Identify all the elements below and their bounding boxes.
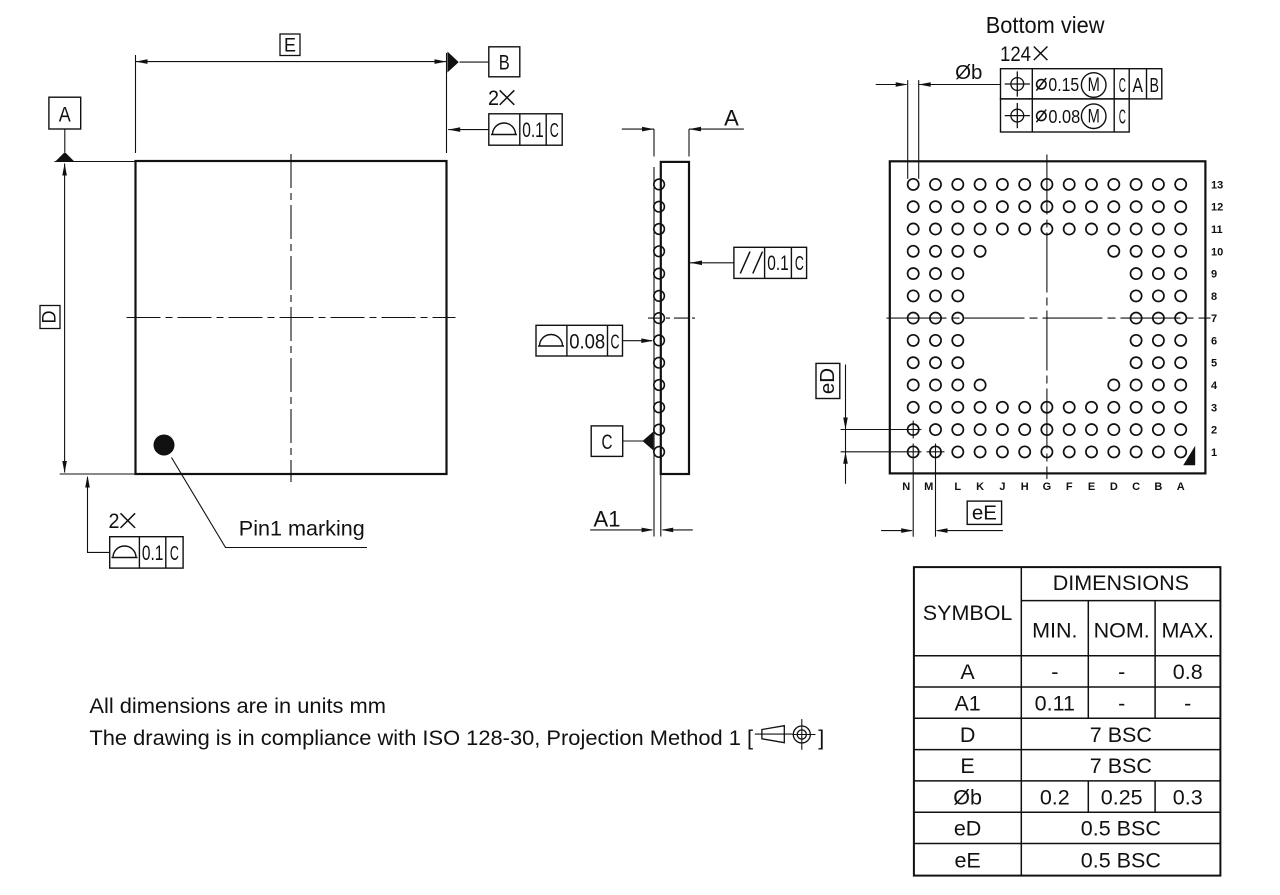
svg-text:-: -: [1118, 660, 1125, 684]
eE dimension line left part: [881, 530, 912, 532]
svg-text:N: N: [902, 481, 910, 493]
D dimension line: [64, 164, 66, 473]
svg-text:Øb: Øb: [955, 61, 982, 84]
profile tolerance frame (bottom left): [110, 537, 183, 568]
top view package body outline: [136, 161, 447, 474]
position symbol (frame row 1): [1011, 78, 1024, 91]
svg-text:E: E: [284, 36, 296, 57]
arrowhead of bottom left frame leader: [85, 476, 90, 488]
svg-text:0.3: 0.3: [1173, 785, 1203, 809]
svg-text:A: A: [724, 105, 739, 130]
position symbol (frame row 2): [1011, 109, 1024, 122]
svg-text:G: G: [1043, 481, 1052, 493]
svg-text:C: C: [170, 543, 179, 565]
svg-text:E: E: [960, 754, 974, 778]
svg-text:6: 6: [1211, 335, 1217, 347]
svg-text:The drawing is in compliance w: The drawing is in compliance with ISO 12…: [89, 726, 753, 750]
A1 right extension line: [660, 474, 662, 537]
eD lower arrowhead: [843, 452, 848, 464]
surface profile symbol (top right frame): [493, 123, 516, 135]
top edge extension line to datum A: [55, 161, 136, 163]
Øb left arrowhead: [896, 82, 908, 87]
svg-text:E: E: [1088, 481, 1095, 493]
svg-text:4: 4: [1211, 380, 1218, 392]
svg-text:7: 7: [1211, 313, 1217, 325]
svg-text:C: C: [550, 120, 559, 142]
side view solder ball bumps: [654, 179, 665, 190]
side view package body outline: [661, 162, 689, 474]
svg-text:DIMENSIONS: DIMENSIONS: [1053, 571, 1189, 595]
E dimension left arrowhead: [136, 59, 148, 64]
Øb right tangent extension line: [918, 80, 920, 179]
svg-text:-: -: [1184, 692, 1191, 716]
E dimension right extension line: [446, 53, 448, 153]
leader from bottom left frame: [88, 477, 110, 552]
svg-text:C: C: [1119, 105, 1126, 128]
parallelism symbol: [740, 252, 750, 274]
eE right arrowhead: [936, 528, 948, 533]
profile tolerance frame (top right): [489, 114, 562, 145]
datum B box: [489, 47, 520, 77]
leader from top right frame: [448, 129, 489, 131]
pin 1 marking leader line: [172, 458, 368, 548]
E dimension label box: [280, 34, 300, 56]
svg-text:5: 5: [1211, 358, 1217, 370]
svg-text:-: -: [1051, 660, 1058, 684]
svg-text:C: C: [795, 253, 804, 275]
svg-text:0.11: 0.11: [1035, 692, 1075, 716]
leader from parallelism frame: [690, 262, 734, 264]
extension line through ball M1 (vertical): [935, 444, 937, 537]
M modifier circle (frame row 1): [1081, 73, 1106, 98]
A dimension right extension line: [688, 129, 690, 157]
leader from side profile frame: [623, 340, 653, 342]
datum C leader line: [623, 440, 644, 442]
2X multiplication cross (bottom left): [121, 513, 136, 528]
pin 1 marking dot: [154, 435, 175, 456]
Øb dimension line right part: [919, 84, 1001, 86]
svg-text:B: B: [1154, 481, 1162, 493]
datum B filled triangle: [447, 52, 458, 73]
profile tolerance frame (side view): [536, 325, 623, 356]
svg-text:8: 8: [1211, 291, 1217, 303]
svg-text:M: M: [1088, 75, 1100, 96]
svg-text:D: D: [960, 723, 976, 747]
svg-text:A: A: [1133, 74, 1144, 97]
svg-text:A: A: [1177, 481, 1185, 493]
datum A filled triangle: [55, 152, 75, 162]
datum C box: [591, 426, 623, 457]
position tolerance frame row 1: [1001, 69, 1162, 99]
svg-text:NOM.: NOM.: [1094, 619, 1150, 643]
dimensions table grid: [914, 567, 1221, 876]
svg-text:Øb: Øb: [953, 785, 982, 809]
A1 dimension line right part: [663, 529, 693, 531]
A dimension line left part: [622, 128, 654, 130]
arrowhead of top right frame leader: [448, 127, 460, 132]
position tolerance frame row 2: [1001, 99, 1130, 132]
svg-text:7 BSC: 7 BSC: [1090, 754, 1152, 778]
svg-text:0.15: 0.15: [1048, 74, 1079, 95]
top view vertical centerline: [290, 154, 292, 482]
center tick through ball M1 (horizontal): [927, 451, 945, 453]
svg-text:124: 124: [1000, 43, 1031, 66]
svg-text:MIN.: MIN.: [1032, 619, 1077, 643]
svg-text:L: L: [954, 481, 961, 493]
bottom edge extension line: [60, 473, 136, 475]
projection method 1 symbol circles: [793, 726, 810, 743]
svg-text:C: C: [602, 431, 613, 454]
side view ball tangent line (seating plane): [653, 167, 655, 537]
eE dimension line right part: [937, 530, 1003, 532]
A dimension right arrowhead: [689, 127, 701, 132]
svg-text:MAX.: MAX.: [1161, 619, 1214, 643]
svg-text:A: A: [59, 104, 71, 127]
A dimension left arrowhead: [642, 127, 654, 132]
parallelism tolerance frame: [734, 247, 807, 278]
svg-text:Bottom view: Bottom view: [986, 12, 1106, 38]
svg-text:0.25: 0.25: [1101, 785, 1143, 809]
eD dimension label box: [816, 363, 840, 398]
svg-text:eE: eE: [972, 502, 997, 525]
svg-text:C: C: [1132, 481, 1140, 493]
datum A box: [49, 97, 81, 129]
svg-text:-: -: [1118, 692, 1125, 716]
diameter symbol (frame row 2): [1037, 111, 1046, 120]
datum B leader line: [460, 61, 489, 63]
E dimension left extension line: [135, 55, 137, 153]
svg-text:0.1: 0.1: [142, 542, 164, 565]
A1 right arrowhead: [661, 528, 673, 533]
top view horizontal centerline: [127, 317, 456, 319]
svg-text:A1: A1: [954, 692, 980, 716]
Øb right arrowhead: [919, 82, 931, 87]
E dimension line: [136, 61, 447, 63]
projection method 1 symbol cone: [762, 726, 784, 743]
svg-text:C: C: [1119, 74, 1126, 97]
pin A1 corner index triangle: [1183, 446, 1195, 465]
extension line through ball N1: [841, 451, 922, 453]
svg-text:C: C: [611, 332, 620, 354]
svg-text:D: D: [1110, 481, 1118, 493]
bottom view solder ball grid (124 balls): [908, 179, 919, 190]
svg-text:0.08: 0.08: [1048, 106, 1080, 127]
svg-text:M: M: [1088, 106, 1100, 127]
A1 dimension line left part: [590, 529, 652, 531]
surface profile symbol (side view frame): [540, 335, 563, 346]
svg-text:eD: eD: [954, 817, 981, 841]
svg-text:0.08: 0.08: [569, 331, 605, 354]
svg-text:A1: A1: [594, 507, 621, 532]
eE left arrowhead: [901, 528, 913, 533]
svg-text:J: J: [999, 481, 1005, 493]
extension line through ball N2: [841, 429, 922, 431]
svg-text:K: K: [976, 481, 984, 493]
bottom view vertical centerline: [1046, 155, 1048, 480]
arrowhead of side profile frame leader: [641, 338, 653, 343]
E dimension right arrowhead: [435, 59, 447, 64]
svg-text:0.1: 0.1: [767, 252, 789, 275]
svg-text:F: F: [1066, 481, 1073, 493]
svg-text:A: A: [960, 660, 975, 684]
svg-text:2: 2: [488, 87, 499, 110]
D dimension bottom arrowhead: [62, 461, 67, 473]
2X multiplication cross (top right): [500, 90, 515, 105]
Øb left tangent extension line: [907, 80, 909, 179]
svg-text:0.2: 0.2: [1040, 785, 1070, 809]
svg-text:1: 1: [1211, 447, 1217, 459]
eD dimension line: [845, 365, 847, 484]
svg-text:12: 12: [1211, 202, 1223, 214]
svg-text:11: 11: [1211, 224, 1223, 236]
svg-text:M: M: [924, 481, 933, 493]
arrowhead of parallelism frame leader: [690, 261, 702, 266]
svg-text:eE: eE: [954, 848, 980, 872]
A dimension line right part: [689, 128, 744, 130]
svg-text:0.8: 0.8: [1173, 660, 1203, 684]
svg-text:3: 3: [1211, 402, 1217, 414]
svg-text:B: B: [1149, 74, 1159, 97]
svg-text:2: 2: [1211, 425, 1217, 437]
svg-text:SYMBOL: SYMBOL: [923, 601, 1013, 625]
svg-text:13: 13: [1211, 179, 1223, 191]
eD upper arrowhead: [843, 418, 848, 430]
svg-text:7 BSC: 7 BSC: [1090, 723, 1152, 747]
svg-text:D: D: [39, 311, 60, 324]
center tick through ball N2 (vertical): [912, 421, 914, 439]
datum C filled triangle: [643, 432, 654, 451]
bottom view horizontal centerline: [887, 317, 1211, 319]
124X multiplication cross: [1034, 47, 1048, 61]
D dimension top arrowhead: [62, 164, 67, 176]
svg-text:]: ]: [818, 726, 824, 750]
A1 left arrowhead: [642, 528, 654, 533]
A dimension left extension line: [653, 129, 655, 157]
Øb dimension line left part: [876, 84, 907, 86]
M modifier circle (frame row 2): [1081, 104, 1106, 129]
svg-text:0.5 BSC: 0.5 BSC: [1081, 848, 1161, 872]
D dimension label box: [40, 306, 60, 329]
svg-text:B: B: [499, 52, 510, 75]
diameter symbol (frame row 1): [1037, 80, 1046, 89]
bottom view package outline: [890, 161, 1206, 473]
extension line through ball N1 (vertical): [912, 444, 914, 537]
datum A leader line: [64, 129, 66, 152]
svg-text:0.5 BSC: 0.5 BSC: [1081, 817, 1161, 841]
svg-text:2: 2: [109, 510, 120, 533]
svg-text:H: H: [1021, 481, 1029, 493]
side view horizontal centerline: [648, 317, 695, 319]
svg-text:9: 9: [1211, 269, 1217, 281]
eE dimension label box: [967, 501, 1001, 524]
svg-text:0.1: 0.1: [522, 119, 544, 142]
svg-text:eD: eD: [816, 368, 839, 394]
svg-text:Pin1 marking: Pin1 marking: [239, 517, 365, 541]
svg-text:10: 10: [1211, 246, 1223, 258]
svg-text:All dimensions are in units mm: All dimensions are in units mm: [89, 694, 386, 718]
surface profile symbol (bottom left frame): [113, 546, 136, 558]
